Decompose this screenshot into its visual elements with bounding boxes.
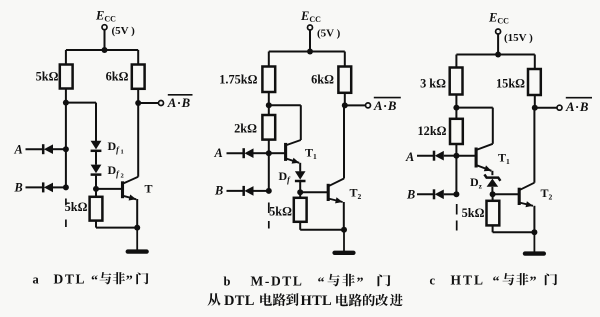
wire input A b (227, 152, 244, 154)
svg-text:B: B (214, 184, 223, 198)
output terminal b (366, 103, 371, 108)
junction node Y b (266, 150, 272, 156)
wire T2 collector to output b (343, 105, 345, 178)
svg-text:b: b (224, 275, 231, 289)
junction output b (342, 102, 348, 108)
wire node X to T1 collector c (456, 107, 492, 109)
svg-text:5kΩ: 5kΩ (462, 206, 485, 220)
wire input A a (26, 148, 44, 150)
output label A·B bar a (167, 95, 193, 110)
wire Df to node Z b (299, 182, 301, 192)
svg-text:2kΩ: 2kΩ (234, 122, 257, 136)
diode input B c (434, 189, 444, 199)
svg-text:A·B: A·B (167, 96, 191, 110)
caption c: c HTL "yu-fei" gate (430, 273, 558, 290)
main caption: cong DTL dianlu dao HTL dianlu de gaijin (208, 293, 403, 309)
resistor 2k b (262, 115, 275, 140)
output label A·B bar b (373, 98, 401, 113)
wire top rail c (456, 54, 534, 56)
wire to output terminal b (347, 104, 366, 106)
wire R3 bottom c (492, 225, 494, 232)
svg-text:(5V ): (5V ) (112, 25, 136, 37)
wire collector T to output a (137, 103, 139, 177)
junction top rail a (102, 47, 108, 53)
svg-text:Dz: Dz (470, 175, 483, 191)
wire Df1 to Df2 (95, 152, 97, 165)
svg-text:DTL: DTL (224, 293, 255, 309)
wire input common a (65, 103, 67, 188)
junction output c (532, 105, 538, 111)
svg-text:(5V ): (5V ) (317, 28, 341, 40)
wire rail to R4 b (344, 52, 346, 67)
wire node X to R2 b (268, 105, 270, 115)
wire base T1 b (269, 152, 285, 154)
wire diode B to common c (444, 193, 457, 195)
wire to Df1 a (95, 103, 97, 141)
wire input common b (268, 153, 270, 191)
wire diode A to node Y b (254, 152, 269, 154)
wire node Z to R3 b (299, 192, 301, 198)
wire node P to diode column a (66, 102, 96, 104)
Ecc terminal circuit b (308, 25, 313, 30)
junction emitter node c (531, 229, 537, 235)
wire diode A to node Y c (444, 155, 457, 157)
resistor 5k c (487, 201, 500, 226)
junction B c (453, 191, 459, 197)
svg-text:T: T (145, 182, 153, 196)
wire base T2 b (300, 191, 327, 193)
dashed input stub 2 c (456, 221, 458, 231)
junction top rail c (495, 52, 501, 58)
junction node P a (63, 100, 69, 106)
wire R1 to node X c (455, 95, 457, 108)
svg-text:12kΩ: 12kΩ (418, 124, 447, 138)
wire Df2 to base node a (95, 176, 97, 189)
junction emitter node b (341, 227, 347, 233)
transistor T2 c (519, 183, 534, 208)
transistor T1 c (476, 144, 493, 171)
svg-text:A: A (14, 142, 23, 156)
svg-text:A·B: A·B (565, 100, 589, 114)
resistor 1.75k b (262, 67, 275, 93)
wire node X to T1 collector b (269, 104, 301, 106)
resistor 5k b (294, 198, 307, 222)
wire R3 to emitter node c (493, 231, 535, 233)
svg-text:HTL: HTL (301, 293, 333, 309)
wire T1 emitter to Dz c (491, 171, 493, 175)
svg-text:15kΩ: 15kΩ (496, 77, 525, 91)
wire input B c (417, 193, 434, 195)
caption a: a DTL "yu-fei" gate (33, 272, 149, 289)
svg-text:M-DTL: M-DTL (251, 274, 304, 289)
wire Dz to node Z c (491, 187, 493, 195)
junction base node a (93, 186, 99, 192)
output label A·B bar c (565, 98, 592, 114)
svg-text:B: B (406, 187, 415, 201)
svg-text:A: A (214, 146, 223, 160)
svg-text:T1: T1 (498, 151, 510, 167)
svg-text:ECC: ECC (488, 11, 509, 26)
wire to output terminal c (537, 107, 557, 109)
wire Ecc to top rail a (104, 30, 106, 50)
wire top rail b (269, 51, 345, 53)
svg-text:”: ” (126, 274, 133, 289)
wire R3 to emitter a (96, 227, 137, 229)
transistor T2 b (328, 179, 344, 204)
junction B b (266, 188, 272, 194)
diode input A b (244, 148, 254, 158)
diode input A c (434, 151, 444, 161)
resistor 6k b (338, 67, 351, 93)
diode Df1 (91, 141, 102, 151)
diode Df b (295, 171, 306, 181)
output terminal c (557, 105, 562, 110)
junction top rail b (307, 49, 313, 55)
wire base T1 c (456, 155, 475, 157)
svg-text:Df: Df (279, 169, 292, 185)
wire T2 emitter down b (343, 202, 345, 230)
output terminal a (159, 101, 164, 106)
wire R2 to node Y c (455, 144, 457, 156)
wire R4 to output c (534, 95, 536, 108)
transistor T1 b (286, 140, 301, 164)
wire R2 to output a (137, 89, 139, 103)
svg-text:c: c (430, 274, 436, 288)
dashed input stub 1 c (456, 204, 458, 215)
wire rail to R2 a (137, 50, 139, 65)
junction node Z c (490, 191, 496, 197)
svg-text:1.75kΩ: 1.75kΩ (219, 73, 257, 87)
wire rail to R1 b (268, 52, 270, 67)
wire top rail a (66, 49, 138, 51)
svg-text:A: A (405, 150, 414, 164)
resistor 6k a (132, 65, 145, 89)
wire T1 collector riser b (300, 105, 302, 140)
wire diode B to common b (254, 190, 269, 192)
wire to output terminal a (141, 102, 159, 104)
diode Df2 (91, 165, 102, 175)
wire input common c (455, 156, 457, 195)
wire R3 to emitter node b (300, 229, 344, 231)
junction emitter node a (134, 225, 140, 231)
svg-text:a: a (33, 273, 40, 287)
wire diode B to common a (53, 186, 66, 188)
wire base a (96, 188, 122, 190)
wire R4 to output b (344, 93, 346, 106)
svg-text:ECC: ECC (300, 9, 321, 24)
resistor 5k pullup a (60, 65, 73, 89)
diode input A a (43, 144, 53, 154)
junction node Z b (297, 189, 303, 195)
dashed input stub 2 b (268, 221, 270, 229)
wire Ecc to top rail b (309, 30, 311, 51)
wire T2 collector to output c (533, 108, 535, 183)
wire input B a (26, 186, 44, 188)
diode input B b (244, 186, 254, 196)
dashed input stub 1 a (65, 199, 67, 206)
svg-text:“: “ (91, 274, 98, 289)
junction B a (63, 184, 69, 190)
wire node X to R2 c (455, 108, 457, 119)
junction node Y c (453, 153, 459, 159)
svg-text:6kΩ: 6kΩ (311, 73, 334, 87)
dashed input stub 1 b (268, 203, 270, 214)
wire base T2 c (493, 193, 518, 195)
svg-text:6kΩ: 6kΩ (106, 70, 129, 84)
wire rail to R4 c (534, 55, 536, 70)
svg-text:Df2: Df2 (108, 163, 124, 180)
wire node Z to R3 c (492, 194, 494, 201)
svg-text:”: ” (530, 275, 537, 290)
resistor 5k base a (90, 197, 103, 221)
resistor 12k c (450, 119, 463, 144)
Ecc terminal circuit c (496, 29, 501, 34)
svg-text:DTL: DTL (54, 272, 87, 287)
wire T1 emitter to Df b (299, 163, 301, 172)
svg-text:3 kΩ: 3 kΩ (420, 77, 446, 91)
wire R3 bottom a (95, 221, 97, 228)
junction node X c (453, 105, 459, 111)
svg-text:T1: T1 (305, 146, 317, 162)
junction A a (63, 146, 69, 152)
wire emitter T down a (136, 199, 138, 228)
wire T1 collector riser c (492, 108, 494, 144)
diode input B a (43, 182, 53, 192)
resistor 3k c (450, 68, 463, 95)
wire Ecc to top rail c (497, 34, 499, 54)
wire input B b (227, 190, 244, 192)
svg-text:(15V ): (15V ) (504, 32, 533, 44)
svg-text:T2: T2 (350, 186, 362, 202)
wire input A c (417, 155, 434, 157)
resistor 15k c (528, 69, 541, 95)
wire R2 to node Y b (268, 140, 270, 154)
svg-text:“: “ (318, 276, 325, 291)
svg-text:Df1: Df1 (108, 139, 124, 156)
ground a (128, 228, 147, 252)
svg-text:”: ” (357, 276, 364, 291)
ground c (525, 232, 544, 253)
svg-text:HTL: HTL (451, 273, 486, 288)
caption b: b M-DTL "yu-fei" gate (224, 274, 391, 291)
wire node to R3 a (95, 189, 97, 197)
wire R1 to node P a (65, 89, 67, 103)
wire rail to R1 a (65, 50, 67, 65)
zener diode Dz c (484, 174, 500, 186)
svg-text:T2: T2 (541, 186, 553, 202)
wire diode A to common a (53, 148, 66, 150)
svg-text:5kΩ: 5kΩ (65, 200, 88, 214)
wire R1 to node X b (268, 92, 270, 105)
svg-text:5kΩ: 5kΩ (36, 70, 59, 84)
svg-text:B: B (14, 181, 23, 195)
ground b (335, 230, 354, 253)
svg-text:5kΩ: 5kΩ (269, 205, 292, 219)
wire rail to R1 c (455, 55, 457, 68)
wire T2 emitter down c (533, 206, 535, 233)
junction output a (135, 100, 141, 106)
transistor T (123, 177, 139, 201)
svg-text:“: “ (493, 275, 500, 290)
svg-text:ECC: ECC (95, 9, 116, 24)
wire R3 bottom b (299, 222, 301, 230)
dashed input stub 2 a (65, 220, 67, 228)
svg-text:A·B: A·B (373, 99, 397, 113)
Ecc terminal circuit a (102, 25, 107, 30)
junction node X b (266, 102, 272, 108)
